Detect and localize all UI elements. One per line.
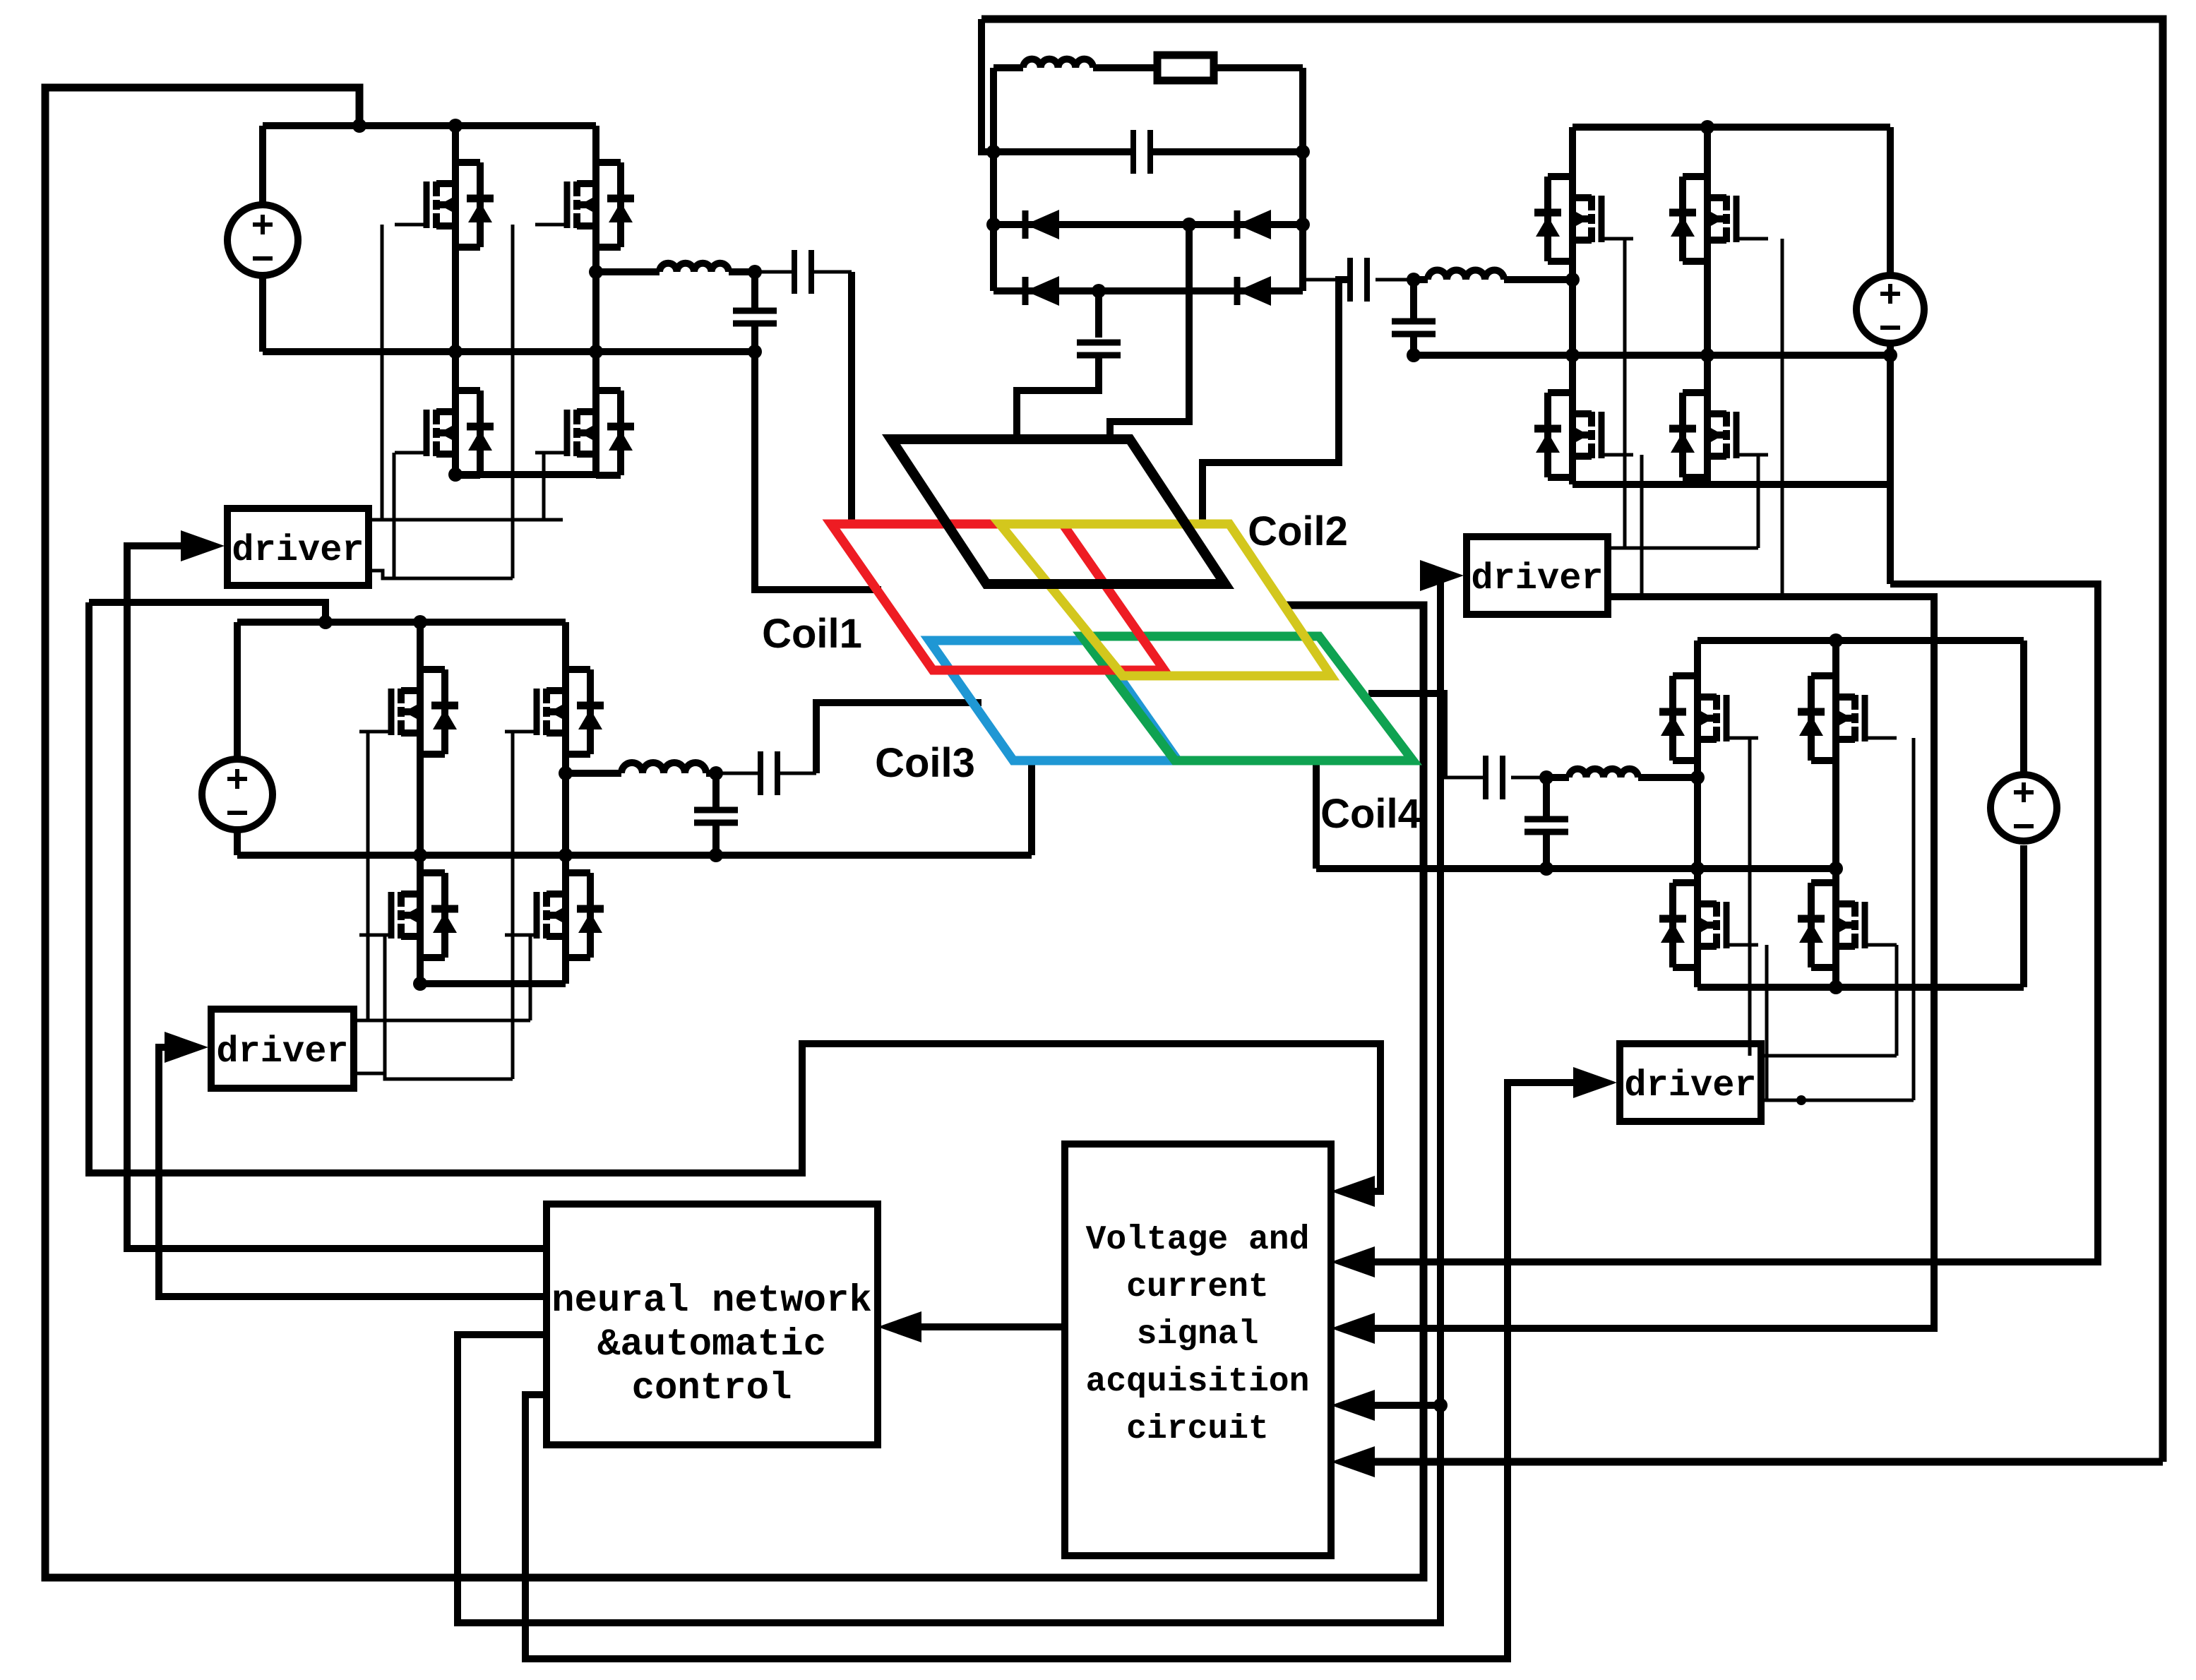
wire HB4 leg B [1832, 641, 1839, 987]
wire HB3 source bottom lead [234, 828, 241, 855]
transistor Q3 [433, 410, 440, 424]
wire driver U1 gate wire Q1 [381, 225, 384, 520]
junction dot HB1 output node [589, 265, 603, 279]
wire HB3 leg A [417, 622, 424, 984]
svg-text:Coil4: Coil4 [1320, 791, 1421, 837]
wire HB3 output to inductor [566, 770, 621, 777]
junction dot HB3 top rail entry [318, 615, 333, 629]
junction dot HB2 LC node [1407, 273, 1421, 287]
wire driver U2 gate wire Q6 [1781, 239, 1784, 597]
junction dot diode row1 left [986, 218, 1001, 232]
svg-text:Coil2: Coil2 [1248, 508, 1348, 554]
wire receiver cap row right [1150, 148, 1303, 155]
junction dot HB3 lower rail [413, 977, 427, 991]
wire HB3 lower rail [420, 980, 566, 987]
wire receiver inner rect left side [990, 68, 997, 291]
junction dot cap row left [986, 145, 1001, 159]
wire HB1 mid rail [263, 348, 755, 355]
wire HB3 LC node to series cap [716, 772, 760, 775]
DC source V4 [1991, 775, 2057, 841]
wire HB2 mid rail [1414, 352, 1890, 359]
junction dot HB1 mid rail right end [748, 345, 762, 359]
wire Coil3 terminal B drop [1028, 761, 1035, 855]
junction dot HB3 mid rail leg B [559, 848, 573, 862]
wire HB3 mid rail [237, 852, 1032, 859]
arrow into driver U1 [181, 530, 225, 561]
junction dot HB1 lower rail [448, 467, 463, 482]
svg-text:Coil1: Coil1 [762, 611, 862, 657]
wire HB4 series cap to corner [1444, 776, 1486, 780]
arrow into driver U4 [1573, 1067, 1617, 1098]
wire driver U3 gate wire Q9 [366, 732, 370, 1020]
wire HB3 inductor to junction [706, 770, 716, 777]
transistor Q12 [543, 892, 550, 907]
wire rectifier lead B upper [1095, 291, 1102, 338]
wire neural to driver4 [525, 1083, 1583, 1659]
wire HB1 source top lead [259, 126, 266, 206]
wire HB4 lower rail [1697, 984, 2024, 991]
DC source V1 [227, 205, 298, 275]
wire HB4 source bottom lead [2020, 845, 2027, 987]
svg-text:driver: driver [1624, 1065, 1756, 1107]
svg-text:neural network: neural network [551, 1280, 872, 1323]
arrow sense4 into acquisition [1331, 1390, 1375, 1421]
wire HB2 shunt cap bottom lead [1410, 334, 1417, 355]
wire HB4 source top lead [2020, 641, 2027, 775]
coil Coil3 blue [929, 641, 1178, 761]
wire receiver outer left drop [981, 19, 993, 152]
diode D4 [1234, 277, 1241, 305]
wire receiver inner rect right side [1299, 68, 1306, 291]
wire HB3 leg B [562, 622, 569, 855]
wire HB4 inductor to junction [1546, 774, 1569, 781]
capacitor C2 shunt [733, 308, 777, 314]
wire receiver top side left segment [993, 64, 1023, 71]
wire HB1 shunt cap top lead [751, 272, 758, 311]
wire driver U4 gate wire Q14 [1912, 738, 1916, 1100]
wire HB4 leg A [1694, 641, 1701, 987]
transistor Q15 [1713, 902, 1720, 917]
svg-text:current: current [1126, 1268, 1269, 1306]
arrow sense3 into acquisition [1331, 1313, 1375, 1344]
transistor Q10 [543, 689, 550, 703]
wire HB3 top rail [237, 619, 566, 626]
junction dot HB2 rail leg B [1700, 120, 1714, 134]
wire HB3 shunt cap top lead [712, 773, 720, 810]
inductor L5 receiver [1023, 59, 1093, 68]
wire HB2 source top lead [1887, 127, 1894, 275]
wire driver U1 gate bus lower [369, 571, 513, 578]
wire HB2 output to inductor [1504, 276, 1573, 283]
transistor Q13 [1713, 695, 1720, 710]
coil Coil4 green [1082, 636, 1413, 761]
wire driver U3 gate bus lower [354, 1073, 513, 1079]
transistor Q7 [1588, 412, 1595, 427]
wire HB1 leg B [592, 126, 599, 352]
wire driver U1 gate wire Q3 [393, 453, 396, 578]
wire driver U4 gate bus upper [1761, 1054, 1897, 1058]
wire HB1 output to inductor [596, 268, 660, 275]
wire rectifier lead A to black coil [1110, 225, 1189, 441]
wire HB2 inductor to junction [1414, 276, 1428, 283]
wire HB3 leg B lower [562, 855, 569, 984]
svg-text:driver: driver [216, 1031, 348, 1073]
coil Coil2 yellow [1000, 524, 1331, 676]
transistor Q1 [433, 181, 440, 196]
junction dot HB2 mid rail leg B [1700, 348, 1714, 362]
block neural network box [547, 1204, 878, 1445]
wire driver U4 gate wire Q16 [1895, 945, 1899, 1056]
coil receiver black [891, 439, 1225, 584]
wire diode row 1 [993, 221, 1303, 228]
svg-text:control: control [632, 1367, 792, 1410]
wire HB2 leg A [1569, 127, 1576, 484]
DC source V2 [1856, 275, 1924, 343]
wire driver U2 gate bus upper [1608, 547, 1758, 550]
wire sense3 from driver2 bus [1368, 597, 1934, 1328]
diode D1 [1022, 210, 1029, 239]
wire HB4 mid rail [1316, 865, 1836, 872]
wire driver U4 gate bus lower [1761, 1099, 1914, 1102]
wire driver U2 gate wire Q7 [1640, 455, 1644, 597]
svg-text:circuit: circuit [1126, 1410, 1269, 1448]
wire top border: receiver loop to right edge down to acquisition arrow5 [981, 19, 2163, 1462]
wire driver U3 gate wire Q11 [383, 935, 387, 1073]
transistor Q2 [573, 181, 580, 196]
wire Coil1 terminal B return [755, 352, 881, 590]
wire HB1 source bottom lead [259, 274, 266, 352]
wire driver U3 gate wire Q10 [511, 732, 515, 1079]
inductor L2 [1428, 270, 1504, 280]
wire HB3 entry from feedback [89, 602, 326, 622]
junction dot diode row1 [1182, 218, 1196, 232]
capacitor C5 receiver series [1130, 130, 1136, 174]
junction dot HB4 mid rail leg B end [1829, 862, 1843, 876]
wire neural to driver1 [127, 546, 547, 1249]
capacitor C9 series [1483, 756, 1488, 799]
svg-text:acquisition: acquisition [1086, 1363, 1310, 1401]
svg-text:&automatic: &automatic [597, 1323, 826, 1366]
wire HB2 top rail [1573, 124, 1890, 131]
wire HB2 lower rail [1573, 481, 1890, 488]
wire sense4 tap [1368, 1402, 1440, 1409]
wire Coil2 terminal A rise [1203, 280, 1350, 524]
wire driver U1 gate wire Q4 [542, 453, 546, 520]
wire HB1 inductor to junction [729, 268, 755, 275]
wire HB3 shunt cap bottom lead [712, 823, 720, 855]
junction dot HB2 output node [1565, 273, 1580, 287]
wire driver U3 gate wire Q12 [529, 935, 532, 1020]
arrow into driver U3 [165, 1032, 208, 1063]
wire sense1 from HB3 rail [89, 602, 1380, 1191]
transistor Q8 [1723, 412, 1730, 427]
wire HB2 shunt cap top lead [1410, 280, 1417, 321]
junction dot HB2 mid rail leg A [1565, 348, 1580, 362]
inductor L3 [621, 763, 706, 773]
junction dot HB4 lower rail [1829, 980, 1843, 994]
wire driver U2 gate wire Q5 [1623, 239, 1627, 548]
wire HB1 lower rail [455, 471, 596, 478]
diode D2 [1234, 210, 1241, 239]
transistor Q9 [398, 689, 405, 703]
resistor R1 receiver load [1157, 55, 1214, 81]
wire HB3 series cap to corner [777, 772, 816, 775]
wire driver U3 gate bus upper [354, 1019, 530, 1023]
capacitor C7 series [758, 751, 763, 795]
wire HB2 leg B [1704, 127, 1711, 484]
wire HB1 shunt cap bottom lead [751, 323, 758, 352]
junction dot sense4 tap [1433, 1398, 1448, 1412]
arrow sense5 into acquisition [1331, 1446, 1375, 1477]
DC source V3 [202, 759, 273, 830]
wire receiver top mid segment [1093, 64, 1157, 71]
junction dot HB1 rail leg A [448, 119, 463, 133]
junction dot HB4 rail leg B [1829, 633, 1843, 648]
transistor Q11 [398, 892, 405, 907]
wire sense5 from receiver loop [1368, 1458, 2163, 1466]
wire HB1 series cap to corner [811, 270, 852, 274]
capacitor C4 shunt [1392, 318, 1436, 325]
wire driver U4 gate wire Q15 [1765, 945, 1769, 1100]
wire receiver cap row left [993, 148, 1133, 155]
arrow into driver U2 [1420, 560, 1464, 591]
wire neural to driver2 [458, 576, 1440, 1623]
capacitor C3 series [1347, 258, 1353, 302]
wire HB4 shunt cap top lead [1543, 778, 1550, 819]
wire Coil3 terminal A [816, 703, 981, 773]
diode D3 [1022, 277, 1029, 305]
junction dot HB3 output node [559, 766, 573, 780]
wire HB4 top rail [1697, 637, 2024, 644]
junction dot HB3 rail leg A [413, 615, 427, 629]
transistor Q16 [1851, 902, 1858, 917]
capacitor C1 series [792, 250, 797, 294]
junction dot HB1 mid rail leg A [448, 345, 463, 359]
wire HB4 output to inductor [1638, 774, 1697, 781]
driver U4 box [1620, 1044, 1761, 1121]
transistor Q4 [573, 410, 580, 424]
junction dot diode row1 right [1296, 218, 1310, 232]
junction dot HB4 shunt on mid rail [1539, 862, 1553, 876]
wire driver U1 gate bus upper [369, 518, 563, 522]
wire HB1 leg B lower [592, 352, 599, 475]
junction dot HB4 LC node [1539, 770, 1553, 785]
arrow sense1 into acquisition [1331, 1176, 1375, 1207]
capacitor C8 shunt [694, 807, 738, 814]
driver U2 box [1467, 537, 1608, 614]
block voltage acquisition box [1065, 1144, 1331, 1556]
svg-text:Voltage and: Voltage and [1086, 1221, 1310, 1259]
driver U1 box [227, 508, 369, 585]
wire HB1 top rail [263, 122, 596, 129]
wire diode row 2 [993, 287, 1303, 294]
wire driver U4 gate wire Q13 [1748, 738, 1752, 1056]
arrow sense2 into acquisition [1331, 1246, 1375, 1277]
junction dot HB3 mid rail leg A [413, 848, 427, 862]
wire HB3 source top lead [234, 622, 241, 761]
wire neural to driver3 [159, 1047, 547, 1297]
wire driver U1 gate wire Q2 [511, 225, 515, 578]
capacitor C10 shunt [1524, 816, 1568, 823]
wire HB1 leg A [452, 126, 459, 475]
wire driver U2 gate wire Q8 [1757, 455, 1760, 548]
junction dot cap row right [1296, 145, 1310, 159]
inductor L1 [660, 263, 729, 272]
wire HB4 shunt cap bottom lead [1543, 832, 1550, 869]
junction dot HB3 shunt on mid rail [709, 848, 723, 862]
capacitor C6 receiver shunt [1077, 340, 1121, 346]
wire HB1 LC node to series cap [755, 270, 794, 274]
junction dot HB2 mid rail left end [1407, 348, 1421, 362]
wire acquisition to neural [914, 1323, 1065, 1330]
wire Coil4 terminal B drop [1313, 761, 1320, 869]
wire HB2 LC node to series cap [1376, 278, 1414, 282]
junction dot HB3 LC node [709, 766, 723, 780]
junction dot HB4 mid rail leg A [1690, 862, 1705, 876]
driver U3 box [211, 1009, 354, 1088]
junction dot HB2 source mid rail [1883, 348, 1897, 362]
wire sense2 from HB2 [1368, 584, 2098, 1262]
inductor L4 [1569, 769, 1638, 778]
junction dot on HB1 top rail at x509 [352, 119, 366, 133]
coil Coil1 red [831, 524, 1164, 670]
transistor Q6 [1723, 196, 1730, 210]
transistor Q14 [1851, 695, 1858, 710]
svg-text:driver: driver [1471, 558, 1603, 600]
wire receiver top right segment [1214, 64, 1303, 71]
wire Coil1 terminal A drop [848, 272, 855, 524]
junction dot diode row2 [1092, 284, 1106, 298]
wire HB2 series cap to corner [1306, 278, 1350, 282]
svg-text:signal: signal [1137, 1316, 1259, 1354]
junction dot HB1 LC node [748, 265, 762, 279]
junction dot driver U4 stub [1796, 1095, 1806, 1105]
wire HB2 source bottom lead [1887, 343, 1894, 584]
wire rectifier lead B to black coil [1017, 355, 1099, 441]
arrow acquisition to neural [878, 1311, 921, 1342]
junction dot HB4 output node [1690, 770, 1705, 785]
wire HB4 LC node to series cap [1511, 776, 1546, 780]
wire net H0: Coil2 terminal B loop via left edge to HB1 top rail [45, 88, 1424, 1578]
svg-text:driver: driver [232, 530, 364, 571]
transistor Q5 [1588, 196, 1595, 210]
junction dot HB1 mid rail leg B [589, 345, 603, 359]
svg-text:Coil3: Coil3 [875, 740, 975, 786]
wire Coil4 terminal A [1368, 693, 1444, 778]
